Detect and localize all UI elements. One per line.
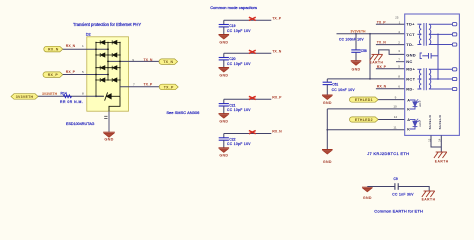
svg-text:GND: GND bbox=[219, 40, 228, 44]
D2 diode row 1 bbox=[96, 41, 120, 43]
port ETHLED1 bbox=[350, 97, 379, 102]
pin 2 marks bbox=[104, 115, 107, 117]
svg-text:9: 9 bbox=[132, 58, 134, 62]
svg-text:10: 10 bbox=[393, 105, 397, 109]
svg-text:See SMSC AN306: See SMSC AN306 bbox=[166, 110, 200, 115]
T1 right taps to contacts bbox=[429, 23, 453, 25]
svg-text:CC 10pF 10V: CC 10pF 10V bbox=[227, 142, 251, 146]
svg-text:TD+: TD+ bbox=[406, 22, 415, 27]
port TX_N bbox=[159, 59, 178, 65]
svg-text:5: 5 bbox=[82, 70, 84, 74]
no-ERC marker on RX_P bbox=[249, 96, 256, 99]
svg-text:Common EARTH for ETH: Common EARTH for ETH bbox=[374, 208, 423, 213]
svg-text:Transient protection for Ether: Transient protection for Ethernet PHY bbox=[73, 22, 141, 27]
ground left of C9 bbox=[362, 186, 373, 188]
wire RX_P bbox=[63, 74, 108, 76]
svg-text:EARTH: EARTH bbox=[422, 197, 436, 201]
no-ERC marker on RX_N bbox=[249, 131, 256, 134]
svg-text:C56: C56 bbox=[361, 49, 367, 53]
earth port at J7 GND pin bbox=[379, 50, 405, 55]
capacitor C9 bbox=[394, 183, 396, 190]
capacitor C19 bbox=[223, 20, 225, 24]
svg-text:GND: GND bbox=[363, 196, 372, 200]
svg-text:TX_P: TX_P bbox=[377, 20, 386, 24]
wire 3V3VETH rail bbox=[337, 33, 405, 35]
wire LED cathode rail (pin 11) bbox=[327, 129, 404, 131]
svg-text:A: A bbox=[407, 118, 410, 122]
wire GND to C9 bbox=[367, 186, 394, 188]
svg-text:RX_N: RX_N bbox=[377, 85, 387, 89]
svg-text:RR 0R N.M.: RR 0R N.M. bbox=[60, 100, 83, 104]
wire ETHLED1 bbox=[378, 99, 405, 101]
wire LED cathode rail (pin 10) bbox=[327, 108, 404, 110]
svg-text:ESD1004RUTAG: ESD1004RUTAG bbox=[66, 122, 95, 126]
svg-text:C22: C22 bbox=[229, 138, 235, 142]
wire center-tap rail bbox=[369, 34, 371, 79]
port RX_P bbox=[43, 72, 63, 78]
svg-text:GND: GND bbox=[352, 67, 361, 71]
svg-text:CC 10pF 10V: CC 10pF 10V bbox=[227, 29, 251, 33]
svg-text:Common mode capacitors: Common mode capacitors bbox=[210, 5, 257, 10]
T2 left taps bbox=[417, 68, 421, 70]
port ETHLED2 bbox=[350, 117, 379, 122]
svg-text:3V3VETH: 3V3VETH bbox=[350, 30, 366, 34]
connector J7 body bbox=[405, 14, 460, 135]
wire C9 to earth bbox=[398, 187, 429, 191]
capacitor C56 bbox=[355, 34, 357, 50]
svg-text:CC 100nF 10V: CC 100nF 10V bbox=[339, 37, 364, 41]
ground bbox=[219, 34, 230, 36]
svg-text:3V3VETH: 3V3VETH bbox=[42, 92, 58, 96]
svg-text:TX_N: TX_N bbox=[272, 49, 281, 53]
svg-text:RX_P: RX_P bbox=[377, 65, 387, 69]
NC pin stub bbox=[396, 61, 405, 63]
svg-text:EARTH: EARTH bbox=[370, 60, 384, 64]
resistor R14 bbox=[38, 95, 104, 97]
svg-text:C20: C20 bbox=[229, 57, 235, 61]
wire RX_P (common-mode cap C21) bbox=[224, 98, 271, 100]
no-ERC marker on TX_N bbox=[249, 50, 256, 53]
svg-text:RX_P: RX_P bbox=[48, 73, 59, 77]
transformer T1 (TX) windings bbox=[419, 24, 421, 44]
svg-text:K: K bbox=[407, 127, 410, 131]
wire TX_P bbox=[120, 86, 159, 88]
T1 left taps bbox=[417, 23, 421, 25]
center-tap vertical rail inside J7 bbox=[437, 34, 439, 79]
transformer T2 (RX) windings bbox=[419, 69, 421, 89]
svg-text:C9: C9 bbox=[394, 177, 398, 181]
svg-text:C19: C19 bbox=[229, 24, 235, 28]
capacitor C21 bbox=[223, 99, 225, 103]
svg-text:GND: GND bbox=[219, 120, 228, 124]
svg-text:TX_P: TX_P bbox=[144, 82, 153, 86]
svg-text:SHIELD: SHIELD bbox=[438, 114, 442, 129]
T2 right taps to contacts bbox=[429, 68, 453, 70]
svg-text:RX_N: RX_N bbox=[66, 44, 76, 48]
svg-text:LED 2: LED 2 bbox=[419, 120, 422, 127]
svg-text:C61: C61 bbox=[332, 82, 338, 86]
wire RX_P to J7 bbox=[376, 68, 405, 70]
svg-text:GND: GND bbox=[219, 73, 228, 77]
ground under D2 bbox=[103, 131, 115, 133]
wire TX_P to J7 bbox=[376, 23, 405, 25]
svg-text:CC 10pF 10V: CC 10pF 10V bbox=[227, 62, 251, 66]
D2 diode row 3 bbox=[96, 67, 120, 69]
wire RX_N bbox=[63, 48, 108, 50]
svg-text:ETHLED2: ETHLED2 bbox=[355, 118, 373, 122]
svg-text:RD-: RD- bbox=[406, 86, 414, 91]
wire TX_N to J7 bbox=[376, 44, 405, 46]
port 3V3VETH bbox=[11, 94, 38, 100]
ground bbox=[219, 113, 230, 115]
capacitor C20 bbox=[223, 53, 225, 57]
svg-text:8: 8 bbox=[82, 92, 84, 96]
svg-text:NC: NC bbox=[406, 59, 412, 64]
D2 diode row 4 bbox=[96, 79, 120, 81]
svg-text:TX_P: TX_P bbox=[272, 16, 281, 20]
svg-text:12: 12 bbox=[394, 115, 398, 119]
shield wires to earth bbox=[431, 135, 441, 152]
ground under LED rail bbox=[322, 149, 333, 151]
svg-text:TX_N: TX_N bbox=[377, 41, 386, 45]
svg-text:7: 7 bbox=[133, 82, 135, 86]
port TX_P bbox=[159, 84, 178, 90]
ground bbox=[219, 147, 230, 149]
ground bbox=[219, 67, 230, 69]
wire D2 to GND bbox=[108, 111, 110, 132]
wire RX_N to J7 bbox=[376, 88, 405, 90]
svg-text:GND: GND bbox=[323, 101, 332, 105]
wire TX_N bbox=[108, 60, 159, 62]
svg-text:LED 1: LED 1 bbox=[419, 100, 422, 107]
svg-text:RX_P: RX_P bbox=[272, 95, 282, 99]
wire TX_N (common-mode cap C20) bbox=[224, 52, 271, 54]
svg-text:RD+: RD+ bbox=[406, 67, 415, 72]
no-ERC marker on TX_P bbox=[249, 17, 256, 20]
svg-text:RX_P: RX_P bbox=[66, 70, 76, 74]
svg-text:GND: GND bbox=[406, 52, 416, 57]
wire TX_P (common-mode cap C19) bbox=[224, 19, 271, 21]
svg-text:TX_N: TX_N bbox=[163, 60, 173, 64]
internal cap from GND pin bbox=[420, 53, 422, 59]
port RX_N bbox=[44, 46, 63, 52]
svg-text:A: A bbox=[407, 98, 410, 102]
svg-text:D2: D2 bbox=[86, 32, 91, 37]
svg-text:TCT: TCT bbox=[406, 32, 415, 37]
svg-text:J7 KRJ2DBTC1 ETH: J7 KRJ2DBTC1 ETH bbox=[367, 151, 409, 156]
zener diode of D2 bbox=[96, 95, 104, 97]
svg-text:3V3VETH: 3V3VETH bbox=[16, 95, 34, 99]
ESD array D2 body bbox=[87, 37, 129, 111]
svg-text:GND: GND bbox=[219, 154, 228, 158]
ground under C56 bbox=[351, 60, 362, 62]
wire RX_N (common-mode cap C22) bbox=[224, 133, 271, 135]
D2 ground pin wire bbox=[109, 96, 120, 111]
svg-text:RX_N: RX_N bbox=[48, 47, 59, 51]
svg-text:TX_P: TX_P bbox=[164, 85, 174, 89]
wire ETHLED2 bbox=[378, 119, 405, 121]
wire RCT row with C61 tap bbox=[327, 78, 404, 80]
capacitor C61 bbox=[326, 79, 328, 82]
ground under C61 bbox=[322, 94, 333, 96]
svg-text:GND: GND bbox=[323, 160, 332, 164]
RJ45 contact pads bbox=[452, 23, 456, 26]
svg-text:ETHLED1: ETHLED1 bbox=[355, 98, 373, 102]
svg-text:TX_N: TX_N bbox=[144, 58, 153, 62]
svg-text:R14: R14 bbox=[61, 92, 67, 96]
svg-text:K: K bbox=[407, 107, 410, 111]
LED 1 inside J7 bbox=[410, 100, 415, 109]
capacitor C22 bbox=[223, 134, 225, 138]
svg-text:TD-: TD- bbox=[406, 42, 414, 47]
earth port at C9 bbox=[424, 190, 435, 192]
svg-text:RCT: RCT bbox=[406, 76, 415, 81]
svg-text:11: 11 bbox=[393, 126, 396, 130]
svg-text:CC 10pF 10V: CC 10pF 10V bbox=[227, 108, 251, 112]
svg-text:SHIELD: SHIELD bbox=[428, 114, 432, 129]
earth port for shield bbox=[436, 151, 447, 153]
svg-text:C21: C21 bbox=[229, 103, 235, 107]
vertical gnd rail for LEDs bbox=[326, 109, 328, 149]
svg-text:25: 25 bbox=[395, 16, 399, 20]
D2 diode row 2 bbox=[96, 54, 120, 56]
svg-text:CC 10nF 10V: CC 10nF 10V bbox=[332, 88, 356, 92]
svg-text:RX_N: RX_N bbox=[272, 130, 282, 134]
svg-text:GND: GND bbox=[104, 137, 113, 141]
svg-text:EARTH: EARTH bbox=[435, 160, 449, 164]
D2 internal bus wires bbox=[95, 42, 97, 96]
LED 2 inside J7 bbox=[410, 119, 415, 129]
svg-text:1: 1 bbox=[82, 44, 84, 48]
svg-text:CC 1nF 3kV: CC 1nF 3kV bbox=[392, 192, 414, 196]
